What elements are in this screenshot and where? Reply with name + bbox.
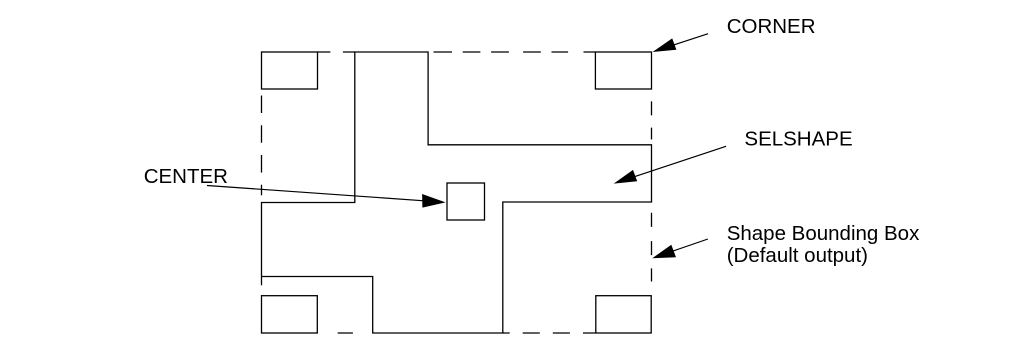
svg-text:CORNER: CORNER	[727, 15, 816, 38]
svg-text:Shape Bounding Box: Shape Bounding Box	[727, 222, 920, 245]
svg-text:(Default output): (Default output)	[727, 244, 868, 267]
svg-text:CENTER: CENTER	[144, 165, 228, 188]
svg-text:SELSHAPE: SELSHAPE	[744, 128, 852, 151]
